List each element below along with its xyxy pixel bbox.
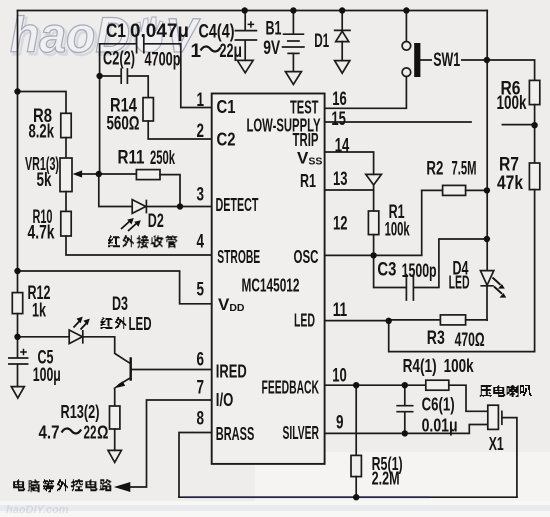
svg-text:TRIP: TRIP xyxy=(293,130,319,150)
wire D3 to Q1 collector xyxy=(83,337,129,363)
LED D3 infrared emitter xyxy=(69,330,83,344)
arrow to external control circuit xyxy=(114,482,131,492)
junction top rail / C4 xyxy=(242,7,248,13)
svg-text:μ: μ xyxy=(234,41,243,62)
svg-text:6: 6 xyxy=(197,350,205,371)
junction left rail / D3 / C5 xyxy=(14,334,20,340)
svg-text:1k: 1k xyxy=(32,301,46,322)
resistor R12 1k xyxy=(12,293,22,314)
piezo buzzer X1 xyxy=(488,405,499,429)
text piezo speaker xyxy=(480,385,532,397)
junction bottom rail / R5 xyxy=(353,494,359,500)
wire to R1 xyxy=(373,185,375,211)
wire left rail to pin 5 VDD xyxy=(18,271,213,304)
svg-text:C1: C1 xyxy=(217,97,236,117)
resistor R4 100k xyxy=(426,380,449,390)
wire R13 to ground xyxy=(114,429,116,450)
resistor R8 8.2k xyxy=(61,113,71,137)
resistor R13 4.7-22ohm xyxy=(110,406,120,429)
wire pin 13 xyxy=(325,189,374,191)
watermark haoDIY top-left (decorative) xyxy=(10,7,201,66)
svg-text:B1: B1 xyxy=(266,19,282,40)
svg-text:R2: R2 xyxy=(426,158,443,179)
resistor R3 470ohm xyxy=(440,315,465,325)
svg-text:R4(1): R4(1) xyxy=(403,356,437,376)
wire to R7 xyxy=(534,125,536,163)
wire D2 to pin 3 DETECT xyxy=(147,206,212,208)
svg-text:STROBE: STROBE xyxy=(217,247,260,267)
svg-text:Ω: Ω xyxy=(97,423,109,443)
wire node A vertical xyxy=(99,44,101,174)
svg-text:22: 22 xyxy=(220,41,234,62)
junction R6 / R7 / pin 15 xyxy=(531,122,537,128)
wire node B to R6 xyxy=(487,60,535,80)
wire left rail upper xyxy=(17,11,19,293)
resistor R14 560ohm xyxy=(143,98,153,121)
wire node B vertical xyxy=(486,11,488,271)
resistor R10 4.7k xyxy=(61,211,71,236)
svg-text:LED: LED xyxy=(294,310,315,330)
wire R6 to pin 15 node xyxy=(534,105,536,126)
wire R3 left xyxy=(389,319,441,321)
resistor R5 2.2M xyxy=(351,455,361,476)
wire R3 right xyxy=(466,319,487,321)
text infrared receiver tube xyxy=(108,235,177,248)
junction node A / C2 xyxy=(96,73,102,79)
svg-text:7: 7 xyxy=(197,378,205,399)
svg-text:SILVER: SILVER xyxy=(283,423,320,443)
svg-text:2: 2 xyxy=(197,121,205,142)
LED D4 xyxy=(480,271,493,286)
wire R4 to X1 top xyxy=(449,385,488,411)
wire FEEDBACK node to R5 xyxy=(355,385,357,455)
svg-text:8: 8 xyxy=(197,409,205,430)
text external computer control circuit xyxy=(13,479,111,492)
resistor R6 100k xyxy=(529,80,539,104)
svg-text:7.5M: 7.5M xyxy=(452,158,477,179)
wire pin 7 I/O to external control xyxy=(130,400,212,487)
pushbutton SW1 xyxy=(402,42,411,51)
junction wiper / R11 / D2 xyxy=(96,171,102,177)
svg-text:R3: R3 xyxy=(427,328,445,349)
resistor R7 47k xyxy=(529,163,539,190)
junction top rail / B1 xyxy=(290,7,296,13)
svg-text:LED: LED xyxy=(129,314,152,334)
junction node B / C3 / D4 xyxy=(484,236,490,242)
svg-text:R11: R11 xyxy=(118,147,145,168)
svg-text:100k: 100k xyxy=(444,356,475,376)
resistor R2 7.5M xyxy=(443,185,466,195)
wire SW1 actuator to node B xyxy=(420,59,487,61)
svg-text:D3: D3 xyxy=(112,294,128,315)
svg-text:D2: D2 xyxy=(148,211,164,232)
svg-text:14: 14 xyxy=(335,136,350,157)
svg-text:R13(2): R13(2) xyxy=(61,402,100,422)
svg-text:LED: LED xyxy=(449,272,470,292)
junction pin 11 / R3 / R7 xyxy=(386,318,392,324)
svg-text:11: 11 xyxy=(333,300,348,321)
svg-text:OSC: OSC xyxy=(294,247,319,267)
ground below C5 xyxy=(11,387,24,398)
svg-text:4.7k: 4.7k xyxy=(28,223,55,244)
junction node B / R6 / SW1 xyxy=(484,57,490,63)
wire left rail to D3 xyxy=(18,336,69,338)
wire VR1 to R10 xyxy=(65,192,67,212)
resistor R1 100k xyxy=(368,211,378,235)
svg-text:I/O: I/O xyxy=(216,390,234,410)
wire top rail to SW1 xyxy=(405,11,407,42)
svg-text:C2: C2 xyxy=(217,129,236,149)
svg-text:1500p: 1500p xyxy=(402,261,437,282)
ground Vss xyxy=(366,174,382,185)
capacitor C2 4700p xyxy=(121,69,127,83)
capacitor C6 0.01u xyxy=(397,406,413,412)
junction left rail / R8 xyxy=(14,88,20,94)
wire pin 12 OSC to R2 xyxy=(325,190,422,255)
wire wiper node to R11 xyxy=(99,173,137,175)
wire node A to C2 xyxy=(100,75,121,77)
wire R7 to pin 11 node xyxy=(389,190,535,352)
D2 incoming light arrows xyxy=(121,221,138,232)
svg-text:2.2M: 2.2M xyxy=(372,469,400,489)
wire pin 16 TEST to SW1 xyxy=(325,77,407,109)
wire pin 15 LOW-SUPPLY TRIP xyxy=(325,121,471,123)
svg-text:4: 4 xyxy=(197,232,205,253)
junction FEEDBACK / C6 xyxy=(402,382,408,388)
wire Q1 emitter to R13 xyxy=(114,389,116,406)
svg-text:4700p: 4700p xyxy=(145,50,181,71)
svg-text:R1: R1 xyxy=(300,171,316,191)
wire R10 to pin 4 STROBE xyxy=(66,236,212,255)
svg-text:100k: 100k xyxy=(497,93,527,114)
wire OSC node to C3 xyxy=(374,255,406,287)
wire to C1 xyxy=(100,43,136,45)
svg-text:1: 1 xyxy=(197,90,205,111)
svg-text:FEEDBACK: FEEDBACK xyxy=(262,378,320,398)
wire pin 9 SILVER to X1 bottom xyxy=(325,425,488,434)
svg-text:5k: 5k xyxy=(37,170,52,191)
wire C5 to ground xyxy=(17,365,19,387)
svg-text:9: 9 xyxy=(336,413,344,434)
svg-text:MC145012: MC145012 xyxy=(242,275,300,295)
svg-text:BRASS: BRASS xyxy=(216,424,255,444)
svg-text:DETECT: DETECT xyxy=(216,195,259,215)
IC U1 MC145012 xyxy=(212,94,325,464)
text infrared xyxy=(101,317,127,329)
wire C6 bottom lead xyxy=(404,412,406,433)
wire top rail to C4 xyxy=(244,11,246,30)
svg-text:C1: C1 xyxy=(106,21,126,42)
svg-text:15: 15 xyxy=(331,109,346,130)
ground below C4 xyxy=(237,60,253,72)
svg-text:IRED: IRED xyxy=(216,361,247,381)
capacitor C4 1-22u electrolytic xyxy=(235,30,256,32)
svg-text:470Ω: 470Ω xyxy=(455,330,485,351)
svg-text:C4(4): C4(4) xyxy=(199,21,235,42)
diode D2 infrared receiver xyxy=(132,200,146,214)
junction SILVER / C6 xyxy=(402,430,408,436)
wire D4 to R3 node xyxy=(486,286,488,320)
svg-text:47k: 47k xyxy=(497,173,523,194)
Q1 emitter arrow xyxy=(119,378,131,385)
svg-text:3: 3 xyxy=(197,185,205,206)
svg-text:22: 22 xyxy=(84,423,97,443)
junction left rail / VDD xyxy=(14,268,20,274)
wire R1 to OSC node xyxy=(373,235,375,256)
svg-text:12: 12 xyxy=(333,214,348,235)
wire X1 to bottom rail xyxy=(502,418,517,498)
battery B1 9V xyxy=(284,33,304,35)
junction top rail / D1 xyxy=(339,7,345,13)
wire C2 to R14 xyxy=(128,76,148,98)
wire R2 right to node B xyxy=(466,189,487,191)
svg-text:10: 10 xyxy=(332,366,347,387)
wire wiper node down to D2 xyxy=(99,174,132,207)
wire pin 10 FEEDBACK xyxy=(325,384,426,386)
svg-text:haoDIY.com: haoDIY.com xyxy=(6,504,69,516)
D3 emitted light arrows xyxy=(74,320,89,330)
resistor R11 250k xyxy=(136,170,160,180)
svg-text:5: 5 xyxy=(197,280,205,301)
svg-text:1: 1 xyxy=(191,41,202,62)
svg-text:C2(2): C2(2) xyxy=(103,49,135,70)
capacitor C1 0.047u xyxy=(137,35,144,53)
junction node B / R2 xyxy=(484,187,490,193)
potentiometer VR1 5k xyxy=(60,158,72,192)
svg-text:0.01μ: 0.01μ xyxy=(422,415,458,435)
wire C3 to node B branch xyxy=(414,239,487,288)
diode D1 xyxy=(335,29,350,31)
label SW1 xyxy=(432,52,461,67)
svg-text:9V: 9V xyxy=(263,38,280,59)
wire top rail to D1 xyxy=(341,11,343,31)
wire C4 to ground xyxy=(244,41,246,60)
wire left rail to R8 xyxy=(18,92,67,114)
wire bottom rail BRASS net xyxy=(179,496,517,498)
wire C6 top lead xyxy=(404,385,406,405)
wire top rail to B1 xyxy=(292,11,294,34)
junction OSC / R1 / C3 xyxy=(370,252,376,258)
wire C1 to pin 1 xyxy=(145,44,212,108)
svg-text:16: 16 xyxy=(332,89,347,110)
svg-text:0.047μ: 0.047μ xyxy=(130,21,189,42)
ground below D1 xyxy=(335,61,350,74)
svg-text:4.7: 4.7 xyxy=(39,423,60,443)
wire R11 to DETECT node xyxy=(160,175,180,207)
svg-text:8.2k: 8.2k xyxy=(29,122,55,143)
capacitor C3 1500p xyxy=(406,275,413,300)
wire to R2 left xyxy=(422,189,443,191)
wire D1 to ground xyxy=(341,42,343,61)
VR1 wiper arrow xyxy=(80,173,99,175)
svg-text:250k: 250k xyxy=(150,148,175,169)
ground below B1 xyxy=(285,72,301,85)
D4 emitted light arrows xyxy=(493,278,503,294)
junction R11 / DETECT xyxy=(177,203,183,209)
svg-text:C6(1): C6(1) xyxy=(422,394,455,414)
svg-text:100k: 100k xyxy=(385,220,410,241)
svg-text:SW1: SW1 xyxy=(433,50,460,71)
wire pin 8 BRASS down xyxy=(179,433,212,498)
svg-text:D1: D1 xyxy=(314,31,329,52)
wire pin 15 right segment xyxy=(502,124,534,126)
svg-text:X1: X1 xyxy=(489,434,504,454)
wire left rail to C5 xyxy=(17,314,19,358)
wire R14 to pin 2 xyxy=(148,121,212,139)
wire Q1 base to pin 6 IRED xyxy=(132,369,213,371)
ground below R13 xyxy=(108,450,121,462)
junction FEEDBACK / R5 xyxy=(353,382,359,388)
svg-text:100μ: 100μ xyxy=(33,365,61,386)
wire R8 to VR1 xyxy=(65,138,67,158)
wire top supply rail xyxy=(18,10,488,12)
wire R5 to bottom rail xyxy=(355,477,357,498)
wire pin 14 Vss to ground xyxy=(325,152,374,174)
wire pin 11 LED xyxy=(325,320,389,322)
transistor Q1 xyxy=(130,357,132,380)
svg-text:C3: C3 xyxy=(377,260,396,281)
wire B1 to ground xyxy=(292,53,294,71)
junction top rail / SW1 xyxy=(403,7,409,13)
svg-text:560Ω: 560Ω xyxy=(107,113,140,134)
svg-text:13: 13 xyxy=(333,169,348,190)
capacitor C5 100u electrolytic xyxy=(20,349,27,356)
